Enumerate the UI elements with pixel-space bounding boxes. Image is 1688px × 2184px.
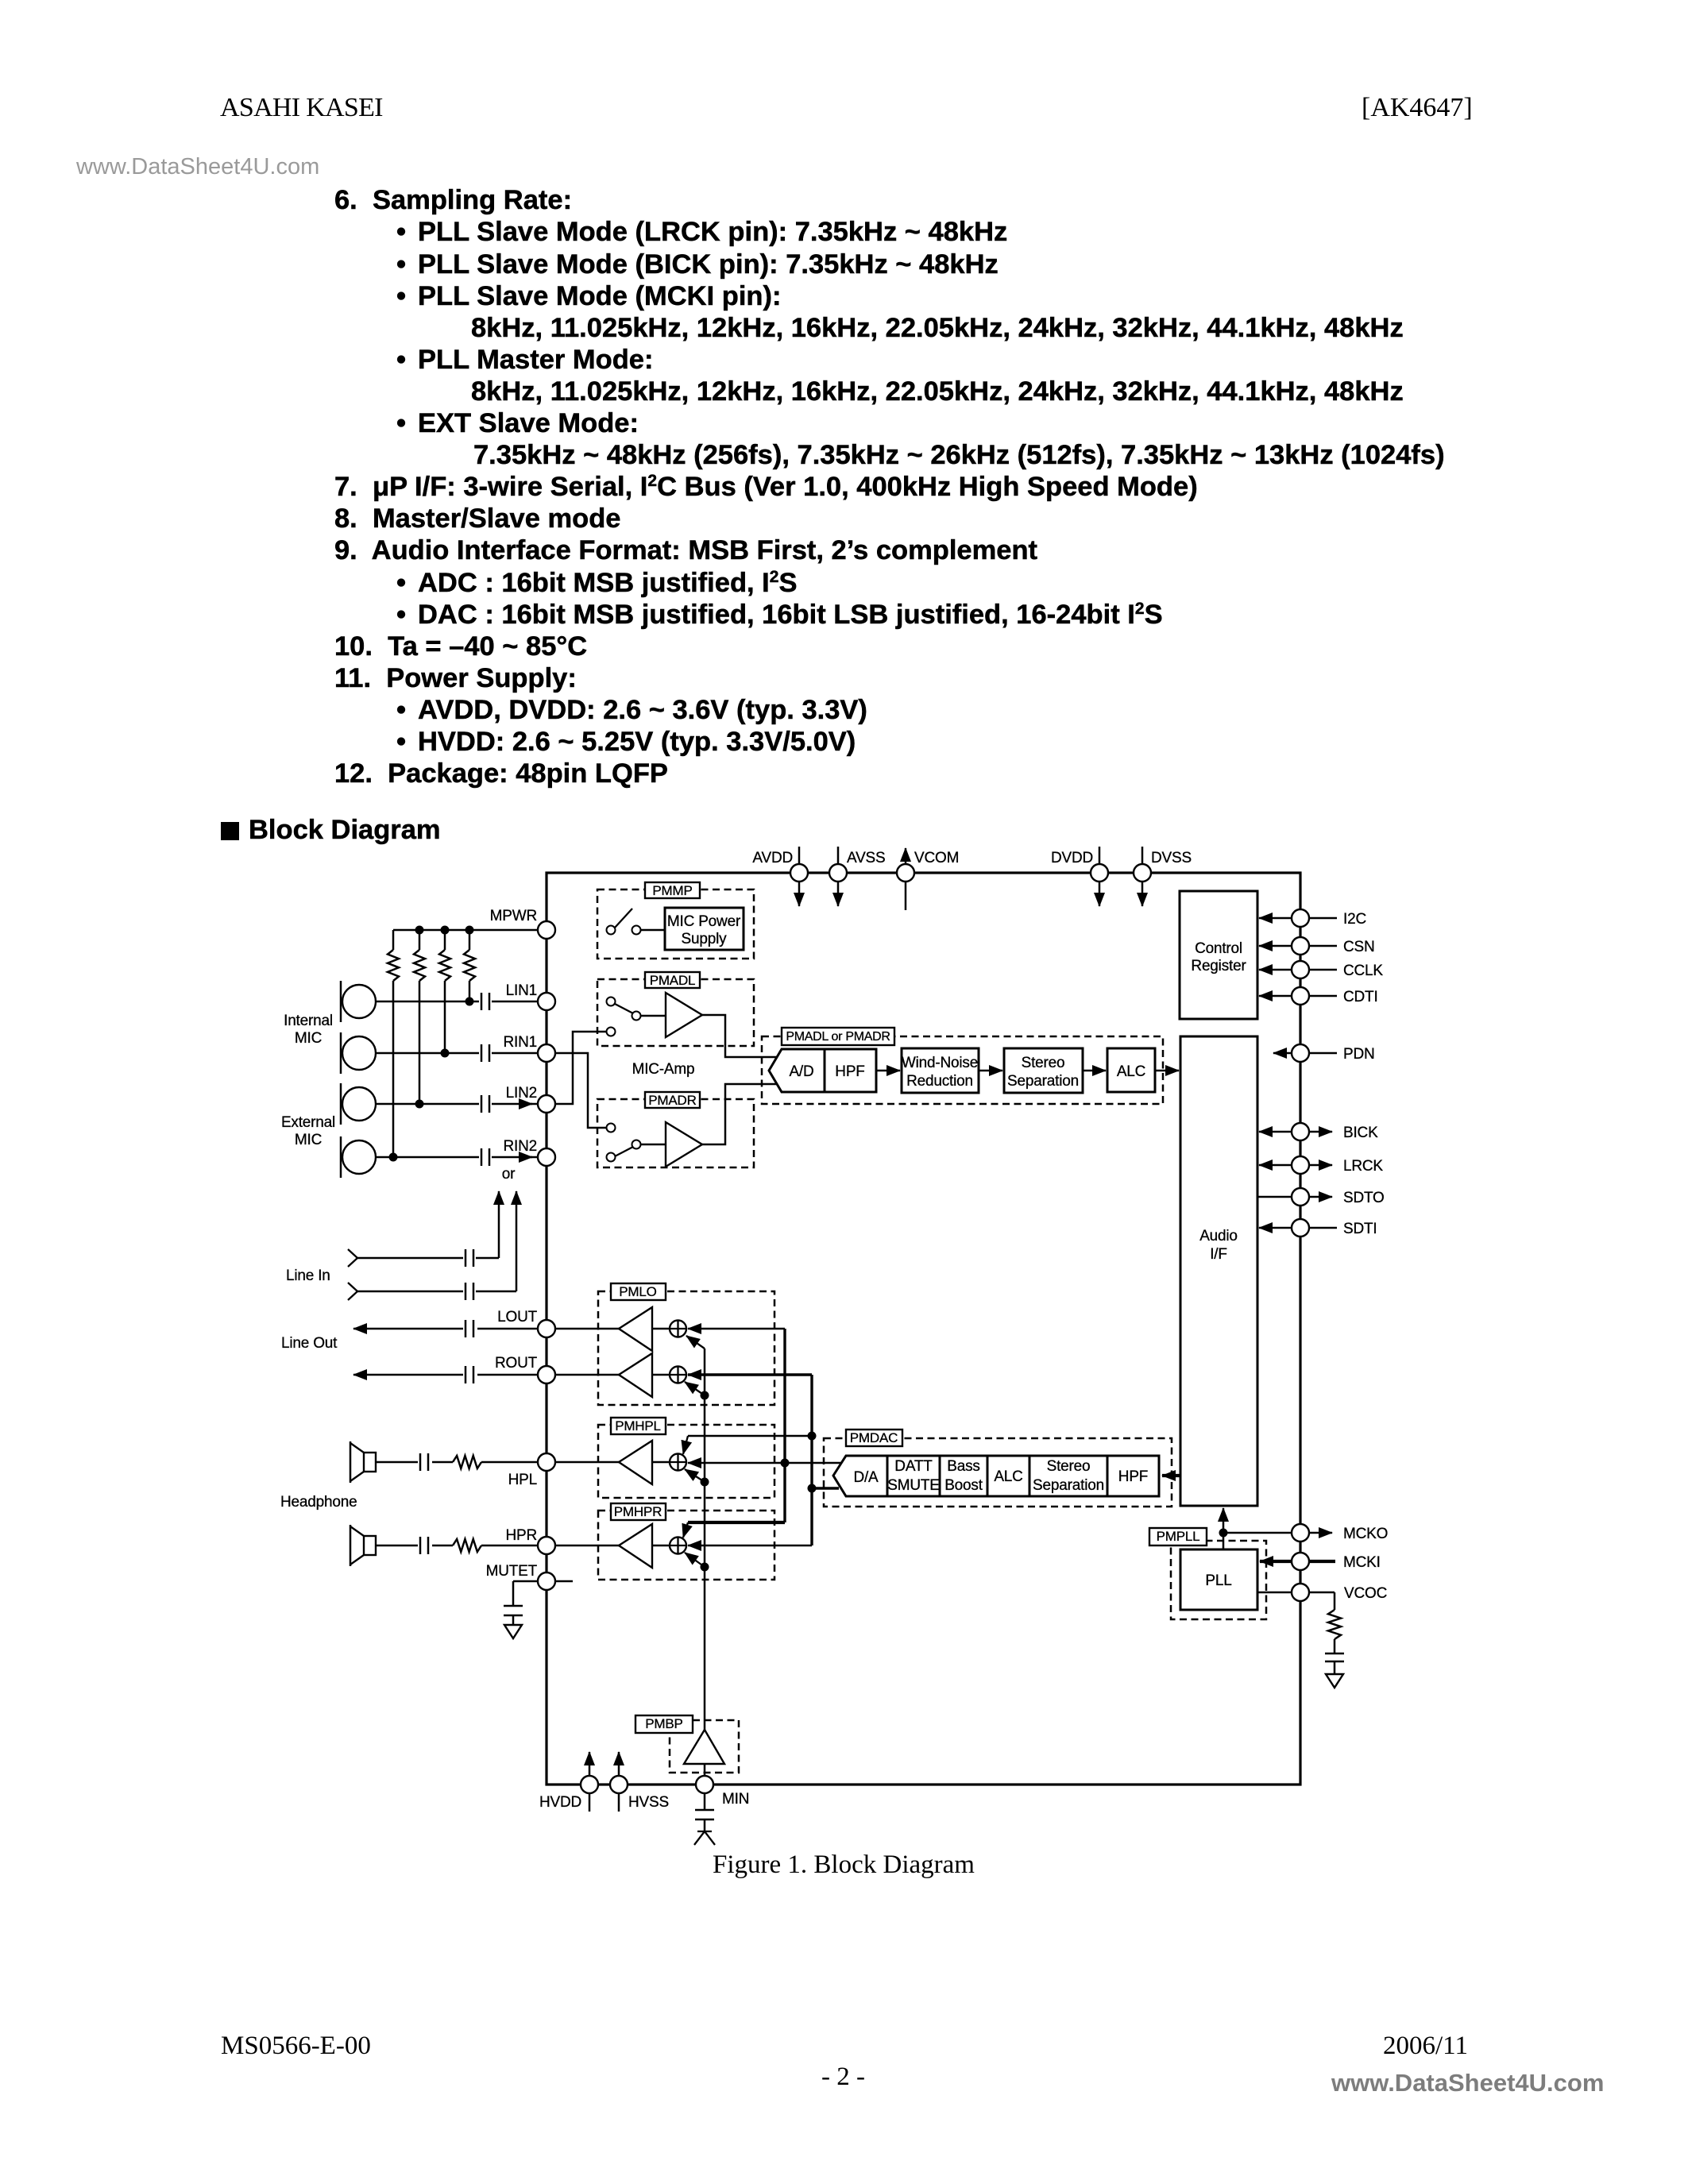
svg-text:PDN: PDN bbox=[1343, 1046, 1375, 1063]
svg-text:HPF: HPF bbox=[835, 1063, 864, 1080]
svg-text:Internal: Internal bbox=[284, 1013, 333, 1029]
svg-text:LRCK: LRCK bbox=[1343, 1158, 1383, 1175]
svg-text:MIN: MIN bbox=[722, 1791, 749, 1808]
svg-text:I2C: I2C bbox=[1343, 911, 1366, 928]
svg-text:HPF: HPF bbox=[1118, 1468, 1148, 1485]
svg-text:MCKI: MCKI bbox=[1343, 1554, 1381, 1571]
svg-text:Supply: Supply bbox=[682, 931, 728, 947]
svg-text:Line In: Line In bbox=[286, 1268, 330, 1284]
svg-text:MCKO: MCKO bbox=[1343, 1526, 1388, 1542]
svg-text:VCOM: VCOM bbox=[914, 850, 959, 866]
svg-text:VCOC: VCOC bbox=[1344, 1585, 1387, 1602]
svg-text:Line Out: Line Out bbox=[281, 1335, 338, 1352]
svg-text:Wind-Noise: Wind-Noise bbox=[902, 1055, 978, 1071]
svg-text:HPL: HPL bbox=[508, 1472, 537, 1488]
svg-text:Bass: Bass bbox=[947, 1458, 979, 1475]
svg-text:ROUT: ROUT bbox=[495, 1355, 538, 1372]
svg-text:PMADL: PMADL bbox=[650, 973, 696, 988]
svg-text:AVDD: AVDD bbox=[752, 850, 793, 866]
svg-text:Register: Register bbox=[1191, 958, 1246, 974]
svg-text:DVSS: DVSS bbox=[1151, 850, 1192, 866]
svg-text:MIC-Amp: MIC-Amp bbox=[632, 1061, 695, 1078]
svg-text:Boost: Boost bbox=[944, 1477, 983, 1494]
svg-text:Stereo: Stereo bbox=[1022, 1055, 1065, 1071]
svg-text:HPR: HPR bbox=[505, 1527, 537, 1544]
svg-text:Headphone: Headphone bbox=[280, 1494, 357, 1511]
svg-text:HVSS: HVSS bbox=[628, 1794, 669, 1811]
svg-text:DATT: DATT bbox=[894, 1458, 933, 1475]
svg-text:DVDD: DVDD bbox=[1051, 850, 1093, 866]
svg-text:PMLO: PMLO bbox=[619, 1284, 656, 1299]
svg-text:SMUTE: SMUTE bbox=[887, 1477, 940, 1494]
svg-text:AVSS: AVSS bbox=[847, 850, 885, 866]
svg-text:External: External bbox=[281, 1114, 335, 1131]
svg-text:or: or bbox=[502, 1166, 516, 1183]
svg-text:PMPLL: PMPLL bbox=[1157, 1529, 1200, 1544]
svg-text:PMMP: PMMP bbox=[652, 883, 692, 898]
svg-text:CSN: CSN bbox=[1343, 939, 1375, 955]
svg-text:D/A: D/A bbox=[853, 1469, 879, 1486]
svg-text:PMDAC: PMDAC bbox=[850, 1430, 898, 1445]
svg-text:ALC: ALC bbox=[1117, 1063, 1145, 1080]
svg-text:PMADL or PMADR: PMADL or PMADR bbox=[786, 1030, 890, 1044]
svg-text:ALC: ALC bbox=[994, 1468, 1022, 1485]
svg-text:Audio: Audio bbox=[1199, 1228, 1238, 1244]
svg-text:Separation: Separation bbox=[1033, 1477, 1104, 1494]
svg-text:PMHPL: PMHPL bbox=[615, 1418, 661, 1433]
svg-text:MIC Power: MIC Power bbox=[667, 913, 741, 930]
svg-text:RIN1: RIN1 bbox=[504, 1034, 538, 1051]
svg-text:LIN1: LIN1 bbox=[506, 982, 537, 999]
svg-text:SDTI: SDTI bbox=[1343, 1221, 1377, 1237]
svg-text:CDTI: CDTI bbox=[1343, 989, 1378, 1005]
svg-text:LOUT: LOUT bbox=[497, 1309, 537, 1325]
svg-text:PMHPR: PMHPR bbox=[614, 1504, 662, 1519]
svg-text:PMADR: PMADR bbox=[648, 1093, 696, 1108]
svg-text:Separation: Separation bbox=[1007, 1073, 1079, 1090]
svg-text:CCLK: CCLK bbox=[1343, 963, 1383, 979]
svg-text:MIC: MIC bbox=[295, 1030, 322, 1047]
svg-text:PLL: PLL bbox=[1205, 1572, 1231, 1589]
svg-text:A/D: A/D bbox=[789, 1063, 813, 1080]
svg-text:HVDD: HVDD bbox=[539, 1794, 581, 1811]
svg-text:PMBP: PMBP bbox=[645, 1716, 682, 1731]
svg-text:SDTO: SDTO bbox=[1343, 1190, 1385, 1206]
svg-text:MIC: MIC bbox=[295, 1132, 322, 1148]
svg-text:MUTET: MUTET bbox=[486, 1563, 538, 1580]
svg-text:LIN2: LIN2 bbox=[506, 1085, 537, 1102]
svg-text:Stereo: Stereo bbox=[1047, 1458, 1091, 1475]
svg-text:MPWR: MPWR bbox=[490, 908, 537, 924]
svg-text:RIN2: RIN2 bbox=[504, 1138, 538, 1155]
svg-text:Reduction: Reduction bbox=[906, 1073, 973, 1090]
svg-text:I/F: I/F bbox=[1210, 1246, 1227, 1263]
svg-text:BICK: BICK bbox=[1343, 1125, 1378, 1141]
svg-text:Control: Control bbox=[1195, 940, 1242, 957]
